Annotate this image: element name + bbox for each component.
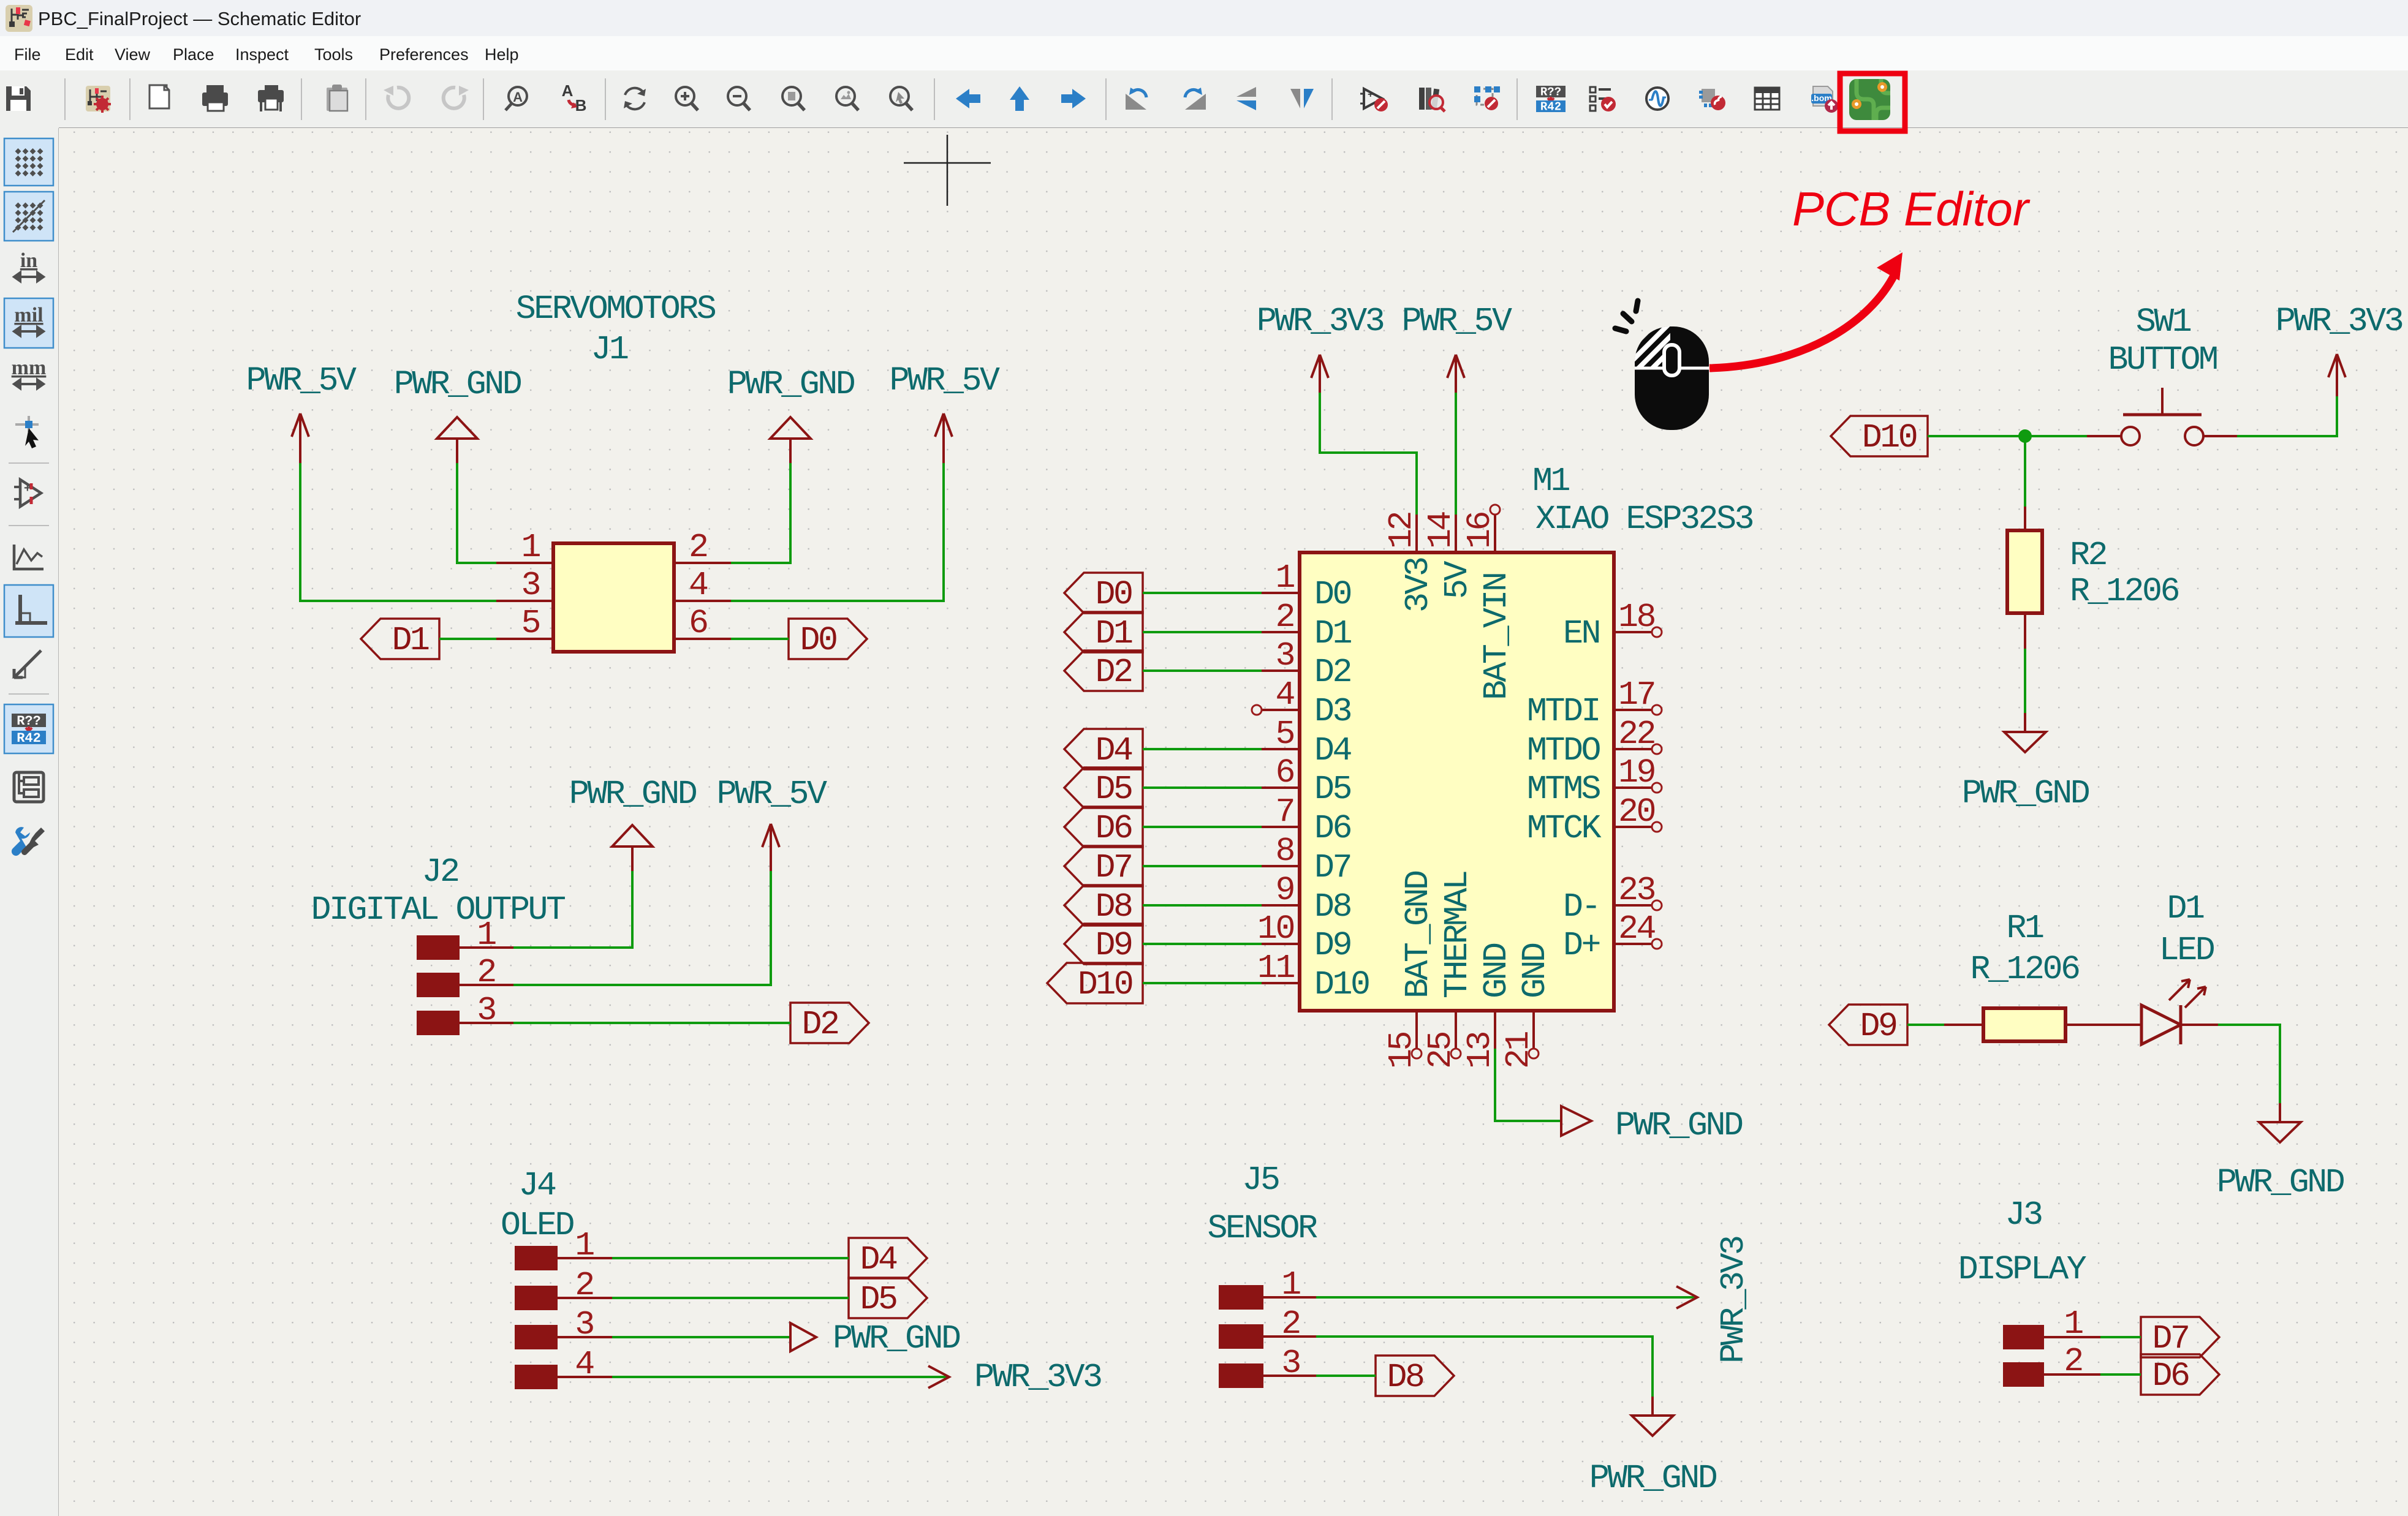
J4 pin 3 number <box>575 1305 593 1344</box>
M1 pin 7 (D6) <box>1262 826 1300 828</box>
svg-text:22: 22 <box>1618 715 1655 753</box>
svg-text:SW1: SW1 <box>2136 303 2191 341</box>
M1 pin 13 number <box>1461 1032 1499 1069</box>
wire J4 pin1 to D4 label <box>612 1257 849 1259</box>
svg-text:M1: M1 <box>1532 462 1570 500</box>
PCB editor toolbar icon <box>1849 79 1890 120</box>
global label D0 at M1 pin 1 <box>1064 573 1143 614</box>
M1 pin 14 number <box>1422 511 1460 549</box>
J3 pin 1 <box>2003 1325 2100 1349</box>
svg-text:12: 12 <box>1382 512 1421 549</box>
svg-text:18: 18 <box>1618 598 1655 636</box>
switch SW1 body <box>2087 388 2237 445</box>
wire J3 pin2 to D6 label <box>2100 1373 2141 1376</box>
M1 pin name MTCK <box>1527 809 1602 848</box>
J1 pin 6 <box>674 638 731 640</box>
global label D7 at J3 pin1 <box>2141 1317 2219 1358</box>
svg-text:17: 17 <box>1618 676 1654 714</box>
M1 pin 25 number <box>1422 1032 1460 1069</box>
svg-text:D5: D5 <box>1314 770 1351 809</box>
M1 pin 10 number <box>1257 910 1294 948</box>
svg-text:23: 23 <box>1618 871 1655 910</box>
wire D1 label to J1 pin5 <box>439 638 496 640</box>
svg-text:4: 4 <box>689 566 708 605</box>
R2 labels <box>2070 536 2179 611</box>
M1 pin 8 (D7) <box>1262 865 1300 867</box>
M1 pin 22 number <box>1618 715 1655 753</box>
unconnected arrow PWR_3V3 at J4 pin4 <box>928 1358 1101 1397</box>
J4 pin 2 number <box>575 1266 593 1305</box>
svg-text:LED: LED <box>2159 931 2214 970</box>
svg-text:BAT_VIN: BAT_VIN <box>1477 573 1516 700</box>
M1 pin 15 number <box>1382 1032 1421 1069</box>
svg-text:PWR_GND: PWR_GND <box>727 365 855 404</box>
M1 pin 5 number <box>1275 715 1293 753</box>
M1 pin 16 (BAT_VIN) <box>1490 505 1500 552</box>
wire D5 label to M1 pin 6 <box>1143 786 1262 789</box>
M1 pin 9 (D8) <box>1262 904 1300 907</box>
svg-text:PWR_GND: PWR_GND <box>833 1319 960 1358</box>
M1 pin name BAT_VIN <box>1477 573 1516 700</box>
M1 pin 3 number <box>1275 636 1293 675</box>
svg-text:2: 2 <box>2064 1342 2082 1381</box>
M1 pin name GND <box>1477 943 1516 998</box>
global label D2 at M1 pin 3 <box>1064 651 1143 692</box>
svg-text:PWR_GND: PWR_GND <box>1962 774 2089 813</box>
svg-text:EN: EN <box>1563 614 1599 653</box>
J1 pin 5 number <box>521 604 539 643</box>
power symbol PWR_GND below LED <box>2217 1103 2344 1202</box>
svg-text:15: 15 <box>1382 1032 1421 1069</box>
M1 reference and value labels <box>1532 462 1753 538</box>
J5 pin 2 <box>1219 1324 1316 1349</box>
power symbol PWR_GND left of J1 <box>394 365 521 463</box>
global label D10 at SW1 <box>1831 416 1928 457</box>
M1 pin name MTDI <box>1527 692 1599 731</box>
svg-text:GND: GND <box>1477 943 1516 998</box>
M1 pin name D- <box>1563 888 1599 926</box>
M1 pin 10 (D9) <box>1262 943 1300 945</box>
J4 pin 1 number <box>575 1226 594 1265</box>
J2 pin 3 <box>417 1011 513 1035</box>
M1 pin name D4 <box>1314 731 1352 770</box>
svg-text:D0: D0 <box>1095 575 1132 614</box>
annotation text PCB Editor <box>1792 182 2031 236</box>
svg-text:8: 8 <box>1275 832 1293 870</box>
global label D8 at M1 pin 9 <box>1064 885 1143 926</box>
power symbol PWR_3V3 above M1 <box>1257 302 1384 393</box>
J2 pin 1 <box>417 935 513 960</box>
svg-text:4: 4 <box>1275 676 1294 714</box>
wire D6 label to M1 pin 7 <box>1143 826 1262 828</box>
wire D1 label to M1 pin 2 <box>1143 631 1262 633</box>
J2 pin 3 number <box>477 991 495 1030</box>
svg-text:3: 3 <box>1281 1344 1300 1382</box>
svg-text:D10: D10 <box>1862 418 1917 457</box>
J1 reference and value labels <box>516 290 716 369</box>
J1 pin 1 <box>496 562 553 564</box>
J5 pin 1 <box>1219 1285 1316 1310</box>
global label D9 at R1 <box>1829 1005 1907 1046</box>
J5 pin 3 <box>1219 1363 1316 1388</box>
wire J4 pin4 <box>612 1376 949 1378</box>
svg-text:D0: D0 <box>1314 575 1351 614</box>
wire D8 label to M1 pin 9 <box>1143 904 1262 907</box>
svg-text:J1: J1 <box>591 330 628 369</box>
svg-text:D5: D5 <box>860 1280 896 1319</box>
M1 pin 7 number <box>1275 793 1293 831</box>
svg-text:PWR_5V: PWR_5V <box>889 361 1000 400</box>
microcontroller module M1 body <box>1300 552 1614 1011</box>
M1 pin 24 number <box>1618 910 1656 948</box>
svg-text:5V: 5V <box>1438 560 1477 599</box>
J2 pin 2 <box>417 973 513 997</box>
J2 pin 1 number <box>477 916 496 954</box>
connector J1 body <box>553 543 674 652</box>
svg-text:3: 3 <box>1275 636 1293 675</box>
M1 pin 3 (D2) <box>1262 669 1300 672</box>
unconnected arrow PWR_GND at J4 pin3 <box>790 1319 960 1358</box>
M1 pin 11 (D10) <box>1262 982 1300 984</box>
wire SW1 to PWR_3V3 <box>2237 396 2337 436</box>
wire D9 label to R1 <box>1907 1024 1944 1026</box>
svg-text:D7: D7 <box>2152 1319 2188 1358</box>
wire J1 pin4 to PWR_5V <box>731 463 944 601</box>
svg-text:D8: D8 <box>1095 888 1132 926</box>
svg-text:16: 16 <box>1461 512 1499 549</box>
svg-text:10: 10 <box>1257 910 1294 948</box>
M1 pin 24 (D+) <box>1614 939 1662 949</box>
svg-text:D2: D2 <box>801 1005 838 1044</box>
M1 pin 13 (GND) <box>1494 1011 1496 1049</box>
svg-text:7: 7 <box>1275 793 1293 831</box>
power symbol PWR_5V right of J1 <box>889 361 1000 463</box>
resistor R2 <box>2007 507 2042 649</box>
global label D5 at M1 pin 6 <box>1064 767 1143 809</box>
svg-text:D9: D9 <box>1095 926 1132 965</box>
svg-text:6: 6 <box>689 604 707 643</box>
global label D6 at M1 pin 7 <box>1064 807 1143 848</box>
M1 pin 20 (MTCK) <box>1614 822 1662 832</box>
M1 pin name D7 <box>1314 848 1350 887</box>
J4 pin 1 <box>515 1246 612 1270</box>
M1 pin 23 (D-) <box>1614 900 1662 910</box>
power symbol PWR_3V3 right of SW1 <box>2276 302 2402 396</box>
J4 pin 4 number <box>575 1345 594 1384</box>
svg-text:XIAO ESP32S3: XIAO ESP32S3 <box>1535 500 1753 538</box>
M1 pin 19 (MTMS) <box>1614 783 1662 793</box>
svg-text:2: 2 <box>689 528 707 567</box>
svg-text:21: 21 <box>1499 1031 1538 1069</box>
svg-text:THERMAL: THERMAL <box>1438 872 1477 998</box>
svg-text:25: 25 <box>1422 1032 1460 1069</box>
svg-text:1: 1 <box>1275 559 1294 597</box>
J5 pin 1 number <box>1281 1265 1300 1304</box>
svg-text:D10: D10 <box>1314 965 1369 1004</box>
wire J4 pin3 <box>612 1336 790 1338</box>
M1 pin 11 number <box>1257 949 1295 987</box>
wire J5 pin1 <box>1316 1296 1697 1299</box>
svg-text:PWR_3V3: PWR_3V3 <box>1714 1237 1753 1363</box>
M1 pin 17 number <box>1618 676 1654 714</box>
M1 pin 18 (EN) <box>1614 627 1662 637</box>
svg-text:PWR_5V: PWR_5V <box>246 361 357 400</box>
M1 pin name EN <box>1563 614 1599 653</box>
annotation red arrow <box>1709 252 1903 368</box>
connector J5 labels <box>1207 1161 1317 1248</box>
global label D2 at J2 pin3 <box>790 1003 869 1044</box>
J1 pin 3 <box>496 600 553 602</box>
svg-text:R1: R1 <box>2006 909 2043 948</box>
svg-text:PWR_5V: PWR_5V <box>1401 302 1512 341</box>
M1 pin 4 (D3) <box>1262 709 1300 711</box>
svg-text:1: 1 <box>1281 1265 1300 1304</box>
wire J3 pin1 to D7 label <box>2100 1336 2141 1338</box>
J3 pin 2 number <box>2064 1342 2082 1381</box>
M1 pin 2 number <box>1275 598 1293 636</box>
power symbol PWR_GND below J5 <box>1589 1397 1717 1498</box>
M1 pin 17 (MTDI) <box>1614 705 1662 715</box>
power symbol PWR_GND above J2 <box>569 775 697 871</box>
J5 pin 2 number <box>1281 1305 1300 1343</box>
M1 pin name GND <box>1516 943 1554 998</box>
svg-text:24: 24 <box>1618 910 1656 948</box>
global label D10 at M1 pin 11 <box>1047 963 1143 1004</box>
svg-text:D-: D- <box>1563 888 1599 926</box>
svg-text:MTDO: MTDO <box>1527 731 1600 770</box>
M1 pin name 5V <box>1438 560 1477 599</box>
svg-text:3: 3 <box>575 1305 593 1344</box>
svg-text:D1: D1 <box>392 621 429 660</box>
M1 pin 5 (D4) <box>1262 748 1300 750</box>
M1 pin name BAT_GND <box>1399 871 1437 998</box>
D1 labels <box>2159 889 2214 970</box>
svg-text:D7: D7 <box>1314 848 1350 887</box>
unconnected arrow PWR_3V3 at J5 pin1 <box>1676 1237 1753 1363</box>
svg-text:1: 1 <box>2064 1305 2083 1343</box>
power symbol PWR_5V above J2 <box>716 775 827 871</box>
wire J1 pin6 to D0 label <box>731 638 789 640</box>
wire M1 pin 13 GND down <box>1495 1049 1561 1121</box>
wire D9 label to M1 pin 10 <box>1143 943 1262 945</box>
J3 pin 2 <box>2003 1362 2100 1387</box>
svg-text:BUTTOM: BUTTOM <box>2108 341 2217 379</box>
svg-text:2: 2 <box>575 1266 593 1305</box>
svg-text:D8: D8 <box>1314 888 1351 926</box>
global label D6 at J3 pin2 <box>2141 1354 2219 1395</box>
svg-text:GND: GND <box>1516 943 1554 998</box>
wire D7 label to M1 pin 8 <box>1143 865 1262 867</box>
svg-text:D0: D0 <box>800 621 836 660</box>
wire J1 pin1 to PWR_GND <box>457 463 496 563</box>
wire J1 pin2 to PWR_GND <box>731 463 790 563</box>
svg-text:D+: D+ <box>1563 926 1600 965</box>
red highlight box around PCB editor toolbar button <box>1840 74 1905 131</box>
svg-text:1: 1 <box>477 916 496 954</box>
svg-text:D1: D1 <box>2167 889 2204 928</box>
svg-text:J3: J3 <box>2005 1196 2042 1234</box>
global label D1 at J1 pin5 <box>361 619 439 660</box>
M1 pin name 3V3 <box>1399 558 1437 613</box>
M1 pin name D3 <box>1314 692 1351 731</box>
svg-text:5: 5 <box>521 604 539 643</box>
svg-text:6: 6 <box>1275 753 1293 792</box>
M1 pin name MTDO <box>1527 731 1600 770</box>
svg-text:PWR_GND: PWR_GND <box>1615 1106 1743 1145</box>
global label D4 at J4 pin1 <box>849 1238 927 1279</box>
J4 pin 3 <box>515 1325 612 1349</box>
switch SW1 labels <box>2108 303 2217 379</box>
svg-text:D10: D10 <box>1078 965 1132 1004</box>
svg-text:SERVOMOTORS: SERVOMOTORS <box>516 290 716 328</box>
global label D1 at M1 pin 2 <box>1064 612 1143 653</box>
M1 pin name D9 <box>1314 926 1351 965</box>
M1 pin name D8 <box>1314 888 1351 926</box>
svg-text:PWR_3V3: PWR_3V3 <box>1257 302 1384 341</box>
J1 pin 6 number <box>689 604 707 643</box>
svg-text:PWR_GND: PWR_GND <box>394 365 521 404</box>
M1 pin name THERMAL <box>1438 872 1477 998</box>
M1 pin 20 number <box>1618 793 1655 831</box>
svg-text:DIGITAL OUTPUT: DIGITAL OUTPUT <box>311 891 565 929</box>
J1 pin 3 number <box>521 566 539 605</box>
svg-text:2: 2 <box>1281 1305 1300 1343</box>
connector J4 labels <box>501 1166 574 1245</box>
power symbol PWR_GND below R2 <box>1962 713 2089 813</box>
svg-text:SENSOR: SENSOR <box>1207 1209 1317 1248</box>
svg-text:3: 3 <box>477 991 495 1030</box>
svg-text:D9: D9 <box>1860 1007 1896 1046</box>
global label D5 at J4 pin2 <box>849 1278 927 1319</box>
J1 pin 5 <box>496 638 553 640</box>
J5 pin 3 number <box>1281 1344 1300 1382</box>
svg-text:D6: D6 <box>2152 1357 2189 1395</box>
J2 pin 2 number <box>477 953 495 992</box>
svg-text:PWR_GND: PWR_GND <box>1589 1459 1717 1498</box>
wire PWR_3V3 to M1 pin 12 <box>1320 393 1417 515</box>
M1 pin 23 number <box>1618 871 1655 910</box>
M1 pin 15 (BAT_GND) <box>1412 1011 1422 1058</box>
wire J5 pin2 to PWR_GND <box>1316 1337 1653 1397</box>
svg-text:1: 1 <box>521 528 540 567</box>
svg-text:D4: D4 <box>860 1240 897 1279</box>
svg-text:2: 2 <box>477 953 495 992</box>
svg-text:PWR_GND: PWR_GND <box>2217 1163 2344 1202</box>
svg-text:D3: D3 <box>1314 692 1351 731</box>
M1 pin name D0 <box>1314 575 1351 614</box>
svg-text:R2: R2 <box>2070 536 2107 575</box>
svg-text:D6: D6 <box>1314 809 1351 848</box>
resistor R1 <box>1944 1008 2141 1041</box>
J4 pin 4 <box>515 1365 612 1389</box>
M1 pin 18 number <box>1618 598 1655 636</box>
M1 pin 25 (THERMAL) <box>1451 1011 1461 1058</box>
svg-text:D5: D5 <box>1095 770 1132 809</box>
svg-text:PCB Editor: PCB Editor <box>1792 182 2031 236</box>
M1 pin 6 number <box>1275 753 1293 792</box>
J1 pin 2 number <box>689 528 707 567</box>
svg-text:D4: D4 <box>1095 731 1132 770</box>
svg-text:DISPLAY: DISPLAY <box>1958 1250 2087 1289</box>
J1 pin 4 number <box>689 566 708 605</box>
svg-text:R_1206: R_1206 <box>2070 572 2179 611</box>
svg-text:PWR_5V: PWR_5V <box>716 775 827 813</box>
unconnected pin circle at M1 pin 4 <box>1252 705 1262 715</box>
wire J2 pin3 to D2 label <box>513 1022 790 1024</box>
wire D2 label to M1 pin 3 <box>1143 669 1262 672</box>
svg-text:D8: D8 <box>1387 1358 1423 1397</box>
M1 pin name MTMS <box>1527 770 1600 809</box>
wire D10 label to M1 pin 11 <box>1143 982 1262 984</box>
M1 pin 2 (D1) <box>1262 631 1300 633</box>
power symbol PWR_5V above M1 <box>1401 302 1512 393</box>
svg-text:J4: J4 <box>518 1166 556 1205</box>
M1 pin 4 number <box>1275 676 1294 714</box>
svg-text:OLED: OLED <box>501 1206 574 1245</box>
wire J2 pin2 to PWR_5V <box>513 871 771 985</box>
wire J1 pin3 to PWR_5V <box>300 463 496 601</box>
svg-text:R_1206: R_1206 <box>1970 950 2079 989</box>
svg-text:D4: D4 <box>1314 731 1352 770</box>
M1 pin 21 number <box>1499 1031 1538 1069</box>
global label D0 at J1 pin6 <box>789 619 867 660</box>
J3 pin 1 number <box>2064 1305 2083 1343</box>
svg-text:D2: D2 <box>1314 653 1351 692</box>
global label D9 at M1 pin 10 <box>1064 924 1143 965</box>
power symbol PWR_5V left of J1 <box>246 361 357 463</box>
M1 pin name D6 <box>1314 809 1351 848</box>
R1 labels <box>1970 909 2079 989</box>
svg-text:9: 9 <box>1275 871 1293 910</box>
svg-text:D1: D1 <box>1095 614 1132 653</box>
J4 pin 2 <box>515 1286 612 1310</box>
svg-text:MTMS: MTMS <box>1527 770 1600 809</box>
svg-text:19: 19 <box>1618 753 1655 792</box>
wire D4 label to M1 pin 5 <box>1143 748 1262 750</box>
power symbol PWR_GND right of J1 <box>727 365 855 463</box>
svg-text:11: 11 <box>1257 949 1295 987</box>
global label D8 at J5 pin3 <box>1376 1356 1454 1397</box>
svg-text:BAT_GND: BAT_GND <box>1399 871 1437 998</box>
junction at D10/R2 node <box>2018 429 2032 443</box>
M1 pin 8 number <box>1275 832 1293 870</box>
M1 pin 12 number <box>1382 512 1421 549</box>
svg-text:PWR_3V3: PWR_3V3 <box>2276 302 2402 341</box>
M1 pin 16 number <box>1461 512 1499 549</box>
J1 pin 4 <box>674 600 731 602</box>
svg-text:D6: D6 <box>1095 809 1132 848</box>
wire J5 pin3 to D8 label <box>1316 1375 1376 1377</box>
wire J4 pin2 to D5 label <box>612 1297 849 1299</box>
svg-text:J2: J2 <box>422 853 458 891</box>
M1 pin name D5 <box>1314 770 1351 809</box>
svg-text:14: 14 <box>1422 511 1460 549</box>
M1 pin 9 number <box>1275 871 1293 910</box>
M1 pin name D10 <box>1314 965 1369 1004</box>
wire junction to R2 <box>2024 436 2026 507</box>
M1 pin name D1 <box>1314 614 1352 653</box>
wire PWR_5V to M1 pin 14 <box>1455 393 1457 515</box>
M1 pin 6 (D5) <box>1262 786 1300 789</box>
M1 pin 21 (GND) <box>1529 1011 1539 1058</box>
cursor crosshair <box>904 135 991 206</box>
svg-text:D7: D7 <box>1095 848 1131 887</box>
svg-text:MTCK: MTCK <box>1527 809 1602 848</box>
LED D1 <box>2141 979 2218 1044</box>
M1 pin 22 (MTDO) <box>1614 744 1662 754</box>
annotation mouse icon <box>1615 301 1709 430</box>
svg-text:3: 3 <box>521 566 539 605</box>
